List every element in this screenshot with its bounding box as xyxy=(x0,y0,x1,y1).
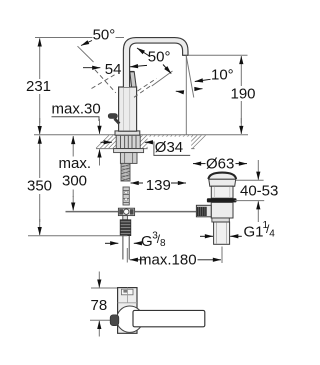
svg-text:40-53: 40-53 xyxy=(240,182,278,199)
svg-text:50°: 50° xyxy=(148,49,171,66)
svg-text:139: 139 xyxy=(146,177,171,194)
svg-text:max.180: max.180 xyxy=(139,252,197,269)
svg-text:231: 231 xyxy=(26,78,51,95)
svg-text:300: 300 xyxy=(62,173,87,190)
svg-text:G: G xyxy=(141,233,153,250)
svg-text:Ø34: Ø34 xyxy=(155,139,183,156)
svg-text:Ø63: Ø63 xyxy=(206,155,234,172)
svg-text:54: 54 xyxy=(105,61,122,78)
svg-text:190: 190 xyxy=(231,86,256,103)
svg-text:50°: 50° xyxy=(93,27,116,44)
svg-text:max.30: max.30 xyxy=(52,101,101,118)
svg-text:max.: max. xyxy=(59,155,92,172)
svg-text:350: 350 xyxy=(27,178,52,195)
svg-text:78: 78 xyxy=(91,297,108,314)
svg-text:10°: 10° xyxy=(211,67,234,84)
svg-text:8: 8 xyxy=(160,238,166,249)
svg-text:G1: G1 xyxy=(244,224,264,241)
svg-text:4: 4 xyxy=(269,229,275,240)
